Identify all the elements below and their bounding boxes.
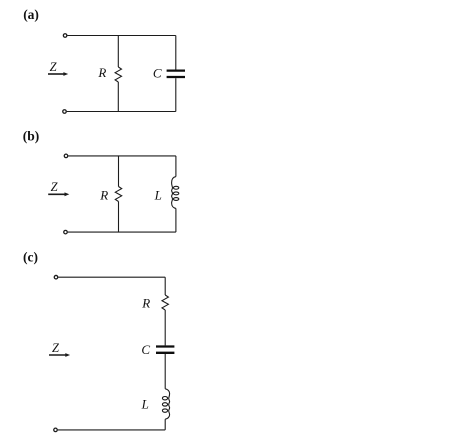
wire: top rail (c) xyxy=(58,276,165,278)
svg-text:Z: Z xyxy=(51,180,59,194)
resistor R (a) xyxy=(115,67,121,82)
node: bottom-left input terminal (a) xyxy=(63,110,67,114)
wire: R branch upper lead (b) xyxy=(118,156,120,187)
wire: lead from top rail down to R (c) xyxy=(164,277,166,295)
capacitor C (c) xyxy=(156,347,174,353)
svg-text:(c): (c) xyxy=(23,249,38,264)
wire: lead C to L (c) xyxy=(164,354,166,389)
svg-text:R: R xyxy=(141,296,150,311)
svg-text:(a): (a) xyxy=(23,7,39,22)
wire: L branch upper lead (b) xyxy=(175,156,177,177)
wire: C branch upper lead (a) xyxy=(175,36,177,70)
resistor R (b) xyxy=(115,187,121,202)
wire: bottom rail (a) xyxy=(67,111,176,113)
resistor R (c) xyxy=(162,295,168,310)
wire: lead L to bottom rail (c) xyxy=(164,419,166,430)
node: top-left input terminal (a) xyxy=(63,34,67,38)
wire: C branch lower lead (a) xyxy=(175,78,177,111)
svg-text:R: R xyxy=(99,187,108,202)
node: top-left input terminal (b) xyxy=(64,154,68,158)
svg-text:L: L xyxy=(141,396,149,411)
arrow: impedance looking-in (c) xyxy=(49,353,70,357)
wire: top rail (a) xyxy=(67,35,176,37)
wire: top rail (b) xyxy=(68,155,176,157)
svg-text:C: C xyxy=(141,342,150,357)
capacitor C (a) xyxy=(167,71,185,77)
node: top-left input terminal (c) xyxy=(54,275,58,279)
node: bottom-left input terminal (b) xyxy=(64,230,68,234)
wire: bottom rail (c) xyxy=(58,429,166,431)
wire: lead R to C (c) xyxy=(164,310,166,345)
node: bottom-left input terminal (c) xyxy=(54,428,58,432)
svg-text:C: C xyxy=(153,66,162,81)
svg-text:Z: Z xyxy=(52,341,60,355)
arrow: impedance looking-in (b) xyxy=(48,192,69,196)
inductor L (c) xyxy=(165,389,169,419)
svg-text:R: R xyxy=(97,65,106,80)
wire: bottom rail (b) xyxy=(68,231,176,233)
wire: L branch lower lead (b) xyxy=(175,208,177,232)
wire: R branch lower lead (b) xyxy=(118,202,120,233)
wire: R branch lower lead (a) xyxy=(117,82,119,112)
wire: R branch upper lead (a) xyxy=(117,36,119,68)
svg-text:L: L xyxy=(154,188,162,203)
svg-text:Z: Z xyxy=(50,60,58,74)
svg-text:(b): (b) xyxy=(23,128,40,143)
inductor L (b) xyxy=(172,177,176,209)
arrow: impedance looking-in (a) xyxy=(48,72,68,76)
